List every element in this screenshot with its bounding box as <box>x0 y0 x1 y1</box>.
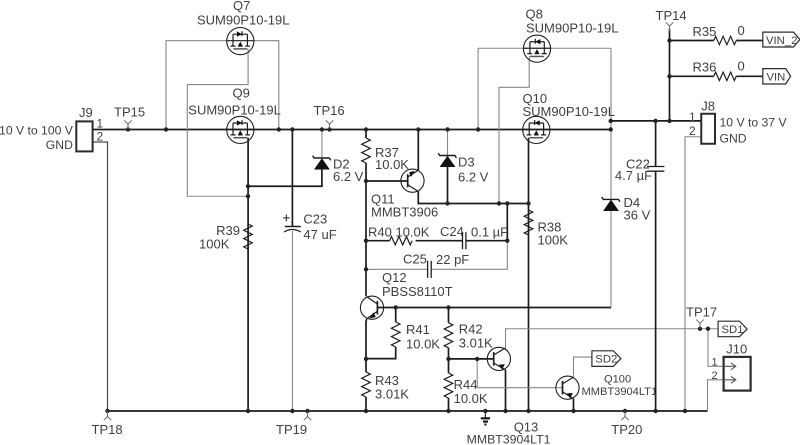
wire: Q7 source loop left <box>166 41 227 130</box>
flag SD2 <box>592 351 621 367</box>
wire: Q10 gate lead <box>528 138 530 204</box>
wire: D2 top lead <box>321 130 323 159</box>
capacitor C23 <box>283 215 301 232</box>
wire: TP14 vertical <box>669 29 671 121</box>
node: y=307.5 row dots <box>394 305 451 309</box>
capacitor C25 <box>428 261 432 278</box>
svg-text:R44: R44 <box>454 377 478 392</box>
connector J10 <box>724 357 751 391</box>
wire: Q8 gate chain <box>499 57 529 204</box>
wire: x366 rail R37 to Q12 collector <box>365 181 367 296</box>
flag SD1 <box>718 321 747 337</box>
wire: Q11 emitter up <box>417 130 419 171</box>
capacitor C24 <box>463 232 466 249</box>
transistor Q7 <box>227 28 254 55</box>
wire: Q11 collector down and row y=203.5 <box>418 192 528 204</box>
wire: C23 top lead <box>291 130 293 227</box>
svg-text:MMBT3906: MMBT3906 <box>371 205 438 220</box>
svg-text:TP20: TP20 <box>611 422 642 437</box>
svg-text:C23: C23 <box>303 212 327 227</box>
wire: R43 leads <box>365 359 367 411</box>
svg-text:100K: 100K <box>538 233 569 248</box>
wire: D2 bottom lead to gate node <box>248 170 322 187</box>
svg-text:Q7: Q7 <box>233 0 250 13</box>
wire: right gray rail x=611 Q8 loop to Q12 base line <box>610 48 612 307</box>
svg-text:10 V to 100 V: 10 V to 100 V <box>0 124 74 138</box>
diode D3 <box>438 153 456 167</box>
wire: Q7 gate chain <box>187 49 248 196</box>
svg-text:10 V to 37 V: 10 V to 37 V <box>720 116 788 130</box>
svg-text:VIN: VIN <box>767 71 786 83</box>
wire: R37 leads <box>365 130 367 182</box>
transistor Q11 <box>401 169 424 192</box>
svg-text:Q12: Q12 <box>382 270 407 285</box>
wire: J10 pin2 link <box>708 380 724 411</box>
wire: R40 leads <box>366 240 463 242</box>
svg-text:SUM90P10-19L: SUM90P10-19L <box>523 104 616 119</box>
svg-text:TP15: TP15 <box>114 105 145 120</box>
wire: D3 bottom lead <box>447 167 449 204</box>
svg-text:R35: R35 <box>693 24 717 39</box>
svg-text:SUM90P10-19L: SUM90P10-19L <box>526 21 619 36</box>
svg-text:1: 1 <box>689 110 696 124</box>
svg-text:100K: 100K <box>199 237 230 252</box>
svg-text:Q8: Q8 <box>526 7 543 22</box>
wire: Q12 emitter down <box>365 319 368 359</box>
svg-text:3.01K: 3.01K <box>459 336 493 351</box>
wire: J10 pin1 link <box>708 329 724 367</box>
svg-text:MMBT3904LT1: MMBT3904LT1 <box>582 386 658 398</box>
svg-text:6.2 V: 6.2 V <box>458 170 489 185</box>
connector J9 <box>76 121 92 151</box>
diode D4 <box>602 197 620 211</box>
node: x366 rail dots <box>364 179 368 272</box>
svg-text:SD2: SD2 <box>595 353 617 365</box>
svg-text:4.7 µF: 4.7 µF <box>615 168 652 183</box>
svg-text:SUM90P10-19L: SUM90P10-19L <box>197 13 290 28</box>
wire: C23 bottom lead <box>291 231 293 411</box>
wire: C24 right link down <box>506 204 508 241</box>
wire: bottom ground rail <box>108 410 708 412</box>
wire: C24 right lead <box>466 240 507 242</box>
wire: Q13 base row <box>449 358 494 360</box>
resistor R36 <box>714 72 737 80</box>
transistor Q9 <box>227 116 254 143</box>
wire: Q7 drain loop right <box>254 41 279 130</box>
connector J8 <box>701 114 715 144</box>
svg-text:0: 0 <box>738 59 745 74</box>
wire: C22 bottom lead <box>655 171 657 411</box>
svg-text:J9: J9 <box>79 105 93 120</box>
svg-text:10.0K: 10.0K <box>375 157 409 172</box>
node: bus dots <box>126 127 613 131</box>
svg-text:TP14: TP14 <box>656 8 687 23</box>
svg-text:SUM90P10-19L: SUM90P10-19L <box>188 103 280 118</box>
testpoint TP19 <box>304 411 311 420</box>
transistor Q12 <box>360 296 383 319</box>
resistor R35 <box>714 36 737 44</box>
node: y=358.9 row dots <box>364 357 480 361</box>
svg-text:47 uF: 47 uF <box>303 227 336 242</box>
svg-text:R40 10.0K: R40 10.0K <box>368 225 430 240</box>
wire: C22 top lead <box>655 121 657 167</box>
node: gate node dots left <box>246 184 250 198</box>
svg-text:2: 2 <box>689 124 696 138</box>
testpoint TP20 <box>621 411 628 420</box>
svg-text:TP17: TP17 <box>686 305 717 320</box>
resistor R43 <box>362 372 371 397</box>
svg-text:GND: GND <box>720 132 747 146</box>
svg-text:3.01K: 3.01K <box>375 387 409 402</box>
svg-text:J10: J10 <box>726 342 747 357</box>
svg-text:TP19: TP19 <box>276 422 307 437</box>
resistor R42 <box>444 323 453 348</box>
svg-text:TP16: TP16 <box>314 103 345 118</box>
svg-text:0.1 µF: 0.1 µF <box>471 225 508 240</box>
wire: R44 leads <box>448 359 450 411</box>
wire: J9 pin2 to bottom rail <box>93 142 108 411</box>
flag VIN_2 <box>763 32 800 47</box>
svg-text:C24: C24 <box>440 224 464 239</box>
wire: Q8 drain loop right <box>550 47 611 49</box>
wire: R38 lead to bottom rail <box>528 204 530 412</box>
testpoint TP14 <box>666 22 673 31</box>
wire: R36 row <box>670 75 763 77</box>
svg-text:Q100: Q100 <box>604 374 631 386</box>
wire: Q13 collector to TP17/SD1 <box>506 329 719 348</box>
capacitor C22 <box>647 167 665 172</box>
transistor Q8 <box>523 35 550 62</box>
svg-text:6.2 V: 6.2 V <box>333 169 364 184</box>
wire: main bus J9 pin1 to right rail <box>93 129 611 131</box>
wire: C25 loop <box>366 241 507 270</box>
svg-text:2: 2 <box>712 370 718 382</box>
resistor R39 <box>244 224 253 249</box>
svg-text:22 pF: 22 pF <box>436 252 469 267</box>
svg-text:J8: J8 <box>701 99 715 114</box>
resistor R40 <box>390 237 413 245</box>
transistor Q13 <box>487 347 510 370</box>
svg-text:10.0K: 10.0K <box>406 337 440 352</box>
svg-text:10.0K: 10.0K <box>454 391 488 406</box>
wire: J8 pin2 chain <box>685 137 701 411</box>
wire: Q100 base link <box>477 359 562 388</box>
svg-text:PBSS8110T: PBSS8110T <box>382 284 453 299</box>
wire: D3 top lead <box>447 130 449 156</box>
ground <box>481 411 490 425</box>
svg-text:36 V: 36 V <box>624 208 651 223</box>
node: y=203.5 row dots <box>445 201 530 243</box>
wire: R42 leads <box>448 308 450 359</box>
node: bottom rail dots <box>105 409 687 413</box>
testpoint TP15 <box>124 120 131 129</box>
wire: Q100 emitter <box>573 399 575 411</box>
flag VIN <box>763 69 791 84</box>
svg-text:2: 2 <box>97 130 104 144</box>
svg-text:TP18: TP18 <box>92 422 123 437</box>
wire: Q12 base row to rail <box>377 307 611 309</box>
svg-text:Q9: Q9 <box>233 86 250 101</box>
svg-text:VIN_2: VIN_2 <box>766 35 797 47</box>
wire: Q9 gate lead down <box>247 138 249 411</box>
testpoint TP18 <box>104 411 111 420</box>
testpoint TP17 <box>696 320 703 329</box>
wire: Q8 source loop left <box>478 48 524 129</box>
resistor R41 <box>391 322 400 347</box>
testpoint TP16 <box>326 120 333 129</box>
transistor Q10 <box>523 116 550 143</box>
svg-text:0: 0 <box>738 23 745 38</box>
svg-text:1: 1 <box>712 357 718 369</box>
svg-text:C25: C25 <box>403 252 427 267</box>
wire: R35 row <box>670 40 763 42</box>
resistor R38 <box>524 210 533 235</box>
svg-text:MMBT3904LT1: MMBT3904LT1 <box>467 433 551 445</box>
wire: Q100 collector to SD2 <box>574 357 592 377</box>
svg-text:R36: R36 <box>693 60 717 75</box>
svg-text:D3: D3 <box>458 155 475 170</box>
transistor Q100 <box>556 376 579 399</box>
svg-text:SD1: SD1 <box>722 324 744 336</box>
diode D2 <box>313 156 331 170</box>
svg-text:GND: GND <box>46 138 73 152</box>
svg-text:R41: R41 <box>406 322 430 337</box>
svg-text:R42: R42 <box>459 322 483 337</box>
node: upper branch dots <box>609 38 672 123</box>
node: TP17 row dots <box>698 327 710 331</box>
wire: Q13 emitter down <box>505 370 507 411</box>
svg-text:1: 1 <box>97 117 104 131</box>
wire: R41 leads <box>366 308 396 359</box>
wire: upper branch to J8 pin 1 <box>611 120 702 122</box>
wire: Q11 base <box>366 180 408 182</box>
resistor R44 <box>444 373 453 398</box>
resistor R37 <box>362 138 371 163</box>
